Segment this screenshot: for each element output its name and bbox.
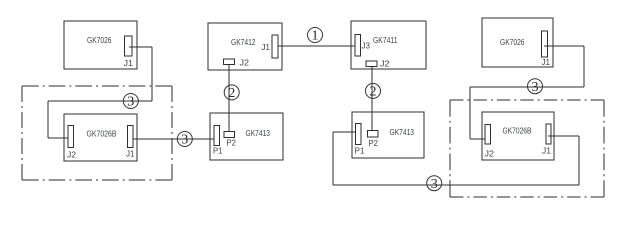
svg-text:2: 2	[228, 86, 235, 101]
wire: GK7412 J1 to GK7411 J3	[278, 45, 355, 47]
wire	[583, 46, 585, 87]
unit GK7026 (top-left)	[64, 21, 137, 69]
wire: GK7026 top-right J1	[544, 45, 584, 47]
connector J1	[272, 35, 278, 58]
wire: GK7026 top-left J1 to corner	[129, 46, 152, 48]
svg-text:J1: J1	[262, 42, 271, 52]
unit GK7413 (middle)	[352, 112, 424, 158]
wire: GK7412 J2 down to GK7413 P2	[228, 64, 230, 132]
wire: bottom long run	[333, 184, 579, 186]
connector J2	[485, 125, 491, 145]
svg-text:GK7413: GK7413	[246, 128, 271, 138]
svg-text:GK7026: GK7026	[87, 35, 112, 45]
svg-text:J2: J2	[380, 59, 390, 69]
wire	[578, 136, 580, 185]
svg-text:P1: P1	[213, 146, 223, 156]
svg-text:J1: J1	[126, 149, 135, 159]
wire: GK7026B J1 to GK7413 P1	[133, 138, 214, 140]
svg-text:GK7026B: GK7026B	[87, 129, 117, 139]
wire	[470, 86, 584, 88]
unit GK7026 (top-right)	[482, 18, 553, 67]
svg-text:2: 2	[370, 85, 377, 100]
svg-text:GK7411: GK7411	[373, 35, 398, 45]
connector J2	[68, 126, 74, 148]
cable number 3 (left-middle)	[177, 132, 192, 147]
wire	[48, 100, 152, 102]
unit GK7026B (right)	[482, 112, 554, 160]
svg-text:3: 3	[431, 177, 438, 192]
wire	[470, 138, 485, 140]
wire	[48, 137, 68, 139]
unit GK7412	[208, 23, 282, 70]
cable shield box left (dash-dot)	[22, 85, 172, 87]
svg-text:J1: J1	[124, 58, 134, 68]
svg-text:1: 1	[312, 29, 319, 44]
svg-text:J2: J2	[67, 150, 76, 160]
connector J1	[125, 36, 133, 56]
connector P1	[214, 126, 220, 146]
svg-text:J3: J3	[362, 41, 371, 51]
wire	[47, 101, 49, 138]
connector J1	[542, 31, 548, 57]
wire: GK7026B right J1 out	[548, 135, 579, 137]
svg-text:J2: J2	[485, 149, 495, 159]
unit GK7411	[351, 21, 426, 69]
connector J1	[546, 124, 551, 144]
cable shield box right (dash-dot)	[450, 99, 604, 101]
cable number 2 (right)	[366, 83, 381, 98]
wire	[151, 47, 153, 101]
cable number 1	[308, 28, 323, 43]
connector J3	[355, 35, 361, 57]
svg-text:GK7026: GK7026	[500, 37, 525, 47]
cable number 3 (bottom)	[427, 176, 442, 191]
connector J2	[366, 61, 377, 67]
wire	[469, 87, 471, 139]
svg-text:P1: P1	[355, 146, 365, 156]
svg-text:J1: J1	[542, 146, 551, 156]
svg-text:3: 3	[127, 95, 134, 110]
unit GK7026B (left)	[64, 114, 137, 161]
svg-text:P2: P2	[227, 138, 237, 148]
connector P2	[368, 131, 379, 138]
cable number 3 (top-right)	[528, 79, 543, 94]
svg-text:GK7026B: GK7026B	[503, 126, 532, 136]
svg-text:GK7412: GK7412	[231, 37, 256, 47]
svg-text:3: 3	[532, 80, 539, 95]
connector J2	[224, 59, 235, 65]
wire: GK7411 J2 down to GK7413 P2	[371, 66, 373, 131]
svg-text:J2: J2	[240, 58, 250, 68]
unit GK7413 (left)	[210, 113, 283, 160]
connector P2	[224, 132, 235, 138]
wire: into GK7413 middle P1	[333, 131, 356, 133]
wire	[332, 132, 334, 185]
svg-text:3: 3	[181, 133, 188, 148]
cable number 3 (top-left)	[123, 94, 138, 109]
svg-text:GK7413: GK7413	[390, 127, 415, 137]
svg-text:J1: J1	[542, 57, 551, 67]
cable number 2 (left)	[224, 85, 239, 100]
connector P1	[356, 124, 362, 145]
svg-text:P2: P2	[369, 138, 379, 148]
connector J1	[128, 126, 134, 148]
